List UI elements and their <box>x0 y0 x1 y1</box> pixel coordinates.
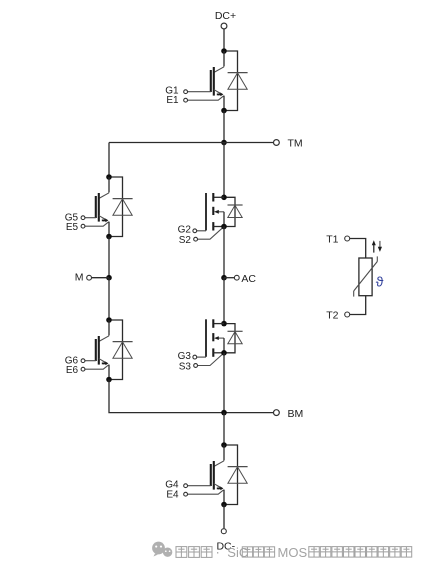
gate terminal of Q6 <box>81 359 85 363</box>
terminal M <box>87 275 92 280</box>
svg-text:S3: S3 <box>179 362 192 373</box>
terminal AC <box>234 275 239 280</box>
svg-text:E4: E4 <box>166 489 179 500</box>
gate terminal of Q1 <box>184 90 188 94</box>
wire Q1 emitter to TM node <box>223 111 225 143</box>
junction dot TM <box>221 140 227 146</box>
source terminal of Q3 <box>194 364 198 368</box>
source terminal of Q2 <box>194 237 198 241</box>
terminal DC+ <box>221 23 227 29</box>
gate terminal of Q4 <box>184 484 188 488</box>
svg-text:DC+: DC+ <box>215 10 236 22</box>
junction dot (DC+ node, Q1/D1) <box>221 48 227 54</box>
svg-text:E1: E1 <box>166 95 179 106</box>
svg-text:ϑ: ϑ <box>376 273 384 289</box>
junction dot (Q4 collector) <box>221 442 227 448</box>
svg-text:E5: E5 <box>66 222 79 233</box>
wire Q3 source to BM node <box>223 353 225 413</box>
transistor Q3 (MOSFET) <box>197 319 224 365</box>
wire BM to Q4 collector <box>223 413 225 445</box>
terminal DC- <box>221 529 226 534</box>
svg-text:·: · <box>216 544 220 559</box>
wire Q5 emitter to M node <box>108 237 110 278</box>
junction dot (Q6 collector) <box>106 317 112 323</box>
junction dot AC <box>221 275 227 281</box>
junction dot (Q3 drain) <box>221 321 227 327</box>
diode D3 (body diode) <box>227 324 243 353</box>
junction dot (Q2 source) <box>221 224 227 230</box>
wire DC+ to Q1 collector <box>223 29 225 51</box>
svg-text:MOS: MOS <box>278 545 308 560</box>
emitter terminal of Q4 <box>184 492 188 496</box>
svg-text:TM: TM <box>288 138 303 150</box>
transistor Q4 (IGBT) <box>188 445 225 505</box>
watermark logo (chat bubbles) <box>152 542 172 557</box>
svg-text:E6: E6 <box>66 365 79 376</box>
svg-text:G3: G3 <box>178 351 192 362</box>
terminal T2 <box>345 312 350 317</box>
junction dot BM <box>221 410 227 416</box>
wire AC lead <box>224 277 234 279</box>
transistor Q1 (IGBT) <box>188 51 225 111</box>
gate terminal of Q2 <box>193 229 197 233</box>
transistor Q5 (IGBT) <box>85 177 109 237</box>
wire Q4 emitter to DC- <box>223 505 225 529</box>
terminal TM <box>274 140 280 146</box>
wire AC to Q3 drain <box>223 278 225 324</box>
svg-text:T1: T1 <box>326 233 338 245</box>
diode D6 (antiparallel) <box>112 320 133 380</box>
wire M lead <box>92 277 110 279</box>
diode D1 (antiparallel) <box>227 51 248 111</box>
svg-text:M: M <box>75 272 84 284</box>
terminal BM <box>274 410 280 416</box>
gate terminal of Q3 <box>193 355 197 359</box>
svg-text:BM: BM <box>288 408 304 420</box>
terminal T1 <box>345 236 350 241</box>
svg-text:G2: G2 <box>178 225 192 236</box>
wire thermistor R1 to T2 <box>350 296 366 315</box>
junction dot (Q2 drain) <box>221 195 227 201</box>
svg-text:S2: S2 <box>179 235 192 246</box>
watermark text <box>176 544 412 560</box>
wire T1 to thermistor R1 <box>350 239 366 259</box>
diode D2 (body diode) <box>227 197 243 226</box>
junction dot (Q4 emitter) <box>221 502 227 508</box>
junction dot (Q6 emitter) <box>106 377 112 383</box>
bidirectional current arrows <box>372 240 382 252</box>
emitter terminal of Q6 <box>81 367 85 371</box>
wire TM to Q2 drain (middle leg) <box>223 143 225 198</box>
junction dot (Q5 emitter) <box>106 234 112 240</box>
transistor Q6 (IGBT) <box>85 320 109 380</box>
junction dot (Q3 source) <box>221 350 227 356</box>
wire TM to Q5 collector (left leg) <box>108 143 110 178</box>
junction dot (Q5 collector) <box>106 174 112 180</box>
diode D4 (antiparallel) <box>227 445 248 505</box>
wire M to Q6 collector <box>108 278 110 320</box>
svg-text:SiC: SiC <box>227 545 248 560</box>
junction dot M <box>106 275 112 281</box>
wire TM horizontal bus <box>109 142 274 144</box>
wire Q2 source to AC node <box>223 227 225 278</box>
diode D5 (antiparallel) <box>112 177 133 237</box>
emitter terminal of Q5 <box>81 224 85 228</box>
gate terminal of Q5 <box>81 216 85 220</box>
junction dot (Q1 emitter / TM branch) <box>221 108 227 114</box>
svg-text:AC: AC <box>241 273 256 285</box>
svg-text:T2: T2 <box>326 309 338 321</box>
emitter terminal of Q1 <box>184 98 188 102</box>
transistor Q2 (MOSFET) <box>197 193 224 239</box>
thermistor R1 (NTC) <box>354 256 378 296</box>
wire Q6 emitter to BM node <box>109 380 274 413</box>
